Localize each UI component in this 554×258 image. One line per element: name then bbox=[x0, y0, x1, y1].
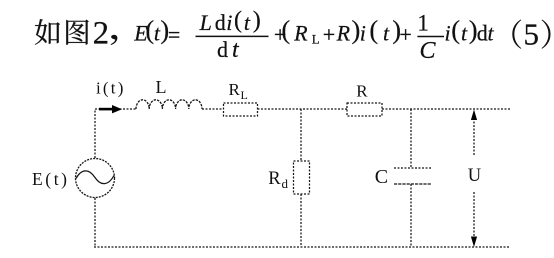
resistor RL box bbox=[224, 103, 258, 116]
svg-text:t: t bbox=[383, 21, 390, 46]
wire: source bottom lead bbox=[94, 198, 96, 247]
svg-text:i: i bbox=[226, 10, 232, 35]
svg-text:(: ( bbox=[281, 14, 290, 44]
wire: Rd branch upper bbox=[300, 109, 302, 161]
fullwidth ( of (5) bbox=[512, 19, 521, 48]
resistor Rd box bbox=[294, 161, 310, 194]
svg-text:5: 5 bbox=[524, 16, 540, 51]
svg-text:1: 1 bbox=[417, 10, 429, 35]
wire: C branch lower bbox=[410, 184, 412, 247]
svg-text:(: ( bbox=[145, 14, 154, 44]
U voltage arrow lower segment bbox=[473, 192, 475, 240]
svg-text:R: R bbox=[356, 81, 368, 100]
svg-text:R: R bbox=[293, 21, 308, 46]
svg-text:t: t bbox=[244, 10, 251, 35]
svg-text:L: L bbox=[199, 10, 212, 35]
source E(t) circle bbox=[76, 159, 115, 198]
svg-text:t: t bbox=[461, 21, 468, 46]
wire: top-left corner from source to inductor bbox=[95, 109, 136, 158]
svg-text:i: i bbox=[445, 21, 451, 46]
svg-text:C: C bbox=[420, 38, 437, 64]
svg-text:R: R bbox=[229, 80, 241, 99]
wire: Rd branch lower bbox=[300, 194, 302, 247]
fullwidth comma bbox=[111, 35, 118, 45]
svg-text:E(t): E(t) bbox=[32, 169, 70, 189]
svg-text:d: d bbox=[217, 37, 228, 62]
svg-text:(: ( bbox=[234, 8, 242, 34]
svg-text:d: d bbox=[282, 176, 289, 191]
wire: inductor to RL bbox=[202, 108, 223, 110]
svg-text:(: ( bbox=[451, 14, 460, 44]
svg-text:+: + bbox=[399, 22, 411, 47]
hanzi 如 bbox=[35, 19, 60, 45]
svg-text:C: C bbox=[375, 166, 388, 188]
inductor L bbox=[136, 100, 202, 109]
hanzi 图 bbox=[66, 20, 88, 45]
fullwidth ) of (5) bbox=[542, 19, 551, 48]
svg-text:d: d bbox=[215, 10, 226, 35]
svg-text:i(t): i(t) bbox=[96, 79, 126, 98]
svg-text:t: t bbox=[232, 37, 240, 63]
U voltage arrow upper segment bbox=[473, 118, 475, 155]
svg-text:+: + bbox=[323, 22, 335, 47]
fraction 1/C bar bbox=[417, 36, 444, 38]
svg-text:R: R bbox=[336, 21, 351, 46]
capacitor C bottom plate bbox=[394, 183, 431, 185]
svg-text:): ) bbox=[253, 8, 261, 34]
source sine wave bbox=[76, 171, 114, 184]
svg-text:2: 2 bbox=[93, 15, 110, 51]
current arrow i(t) shaft bbox=[99, 108, 113, 111]
svg-text:t: t bbox=[488, 21, 495, 46]
current arrow i(t) head bbox=[112, 105, 122, 113]
svg-text:L: L bbox=[312, 32, 320, 47]
svg-text:i: i bbox=[360, 21, 366, 46]
circuit labels bbox=[32, 77, 481, 191]
U arrowhead down bbox=[471, 237, 477, 248]
U arrowhead up bbox=[471, 110, 477, 121]
wire: R to right end of top rail bbox=[382, 108, 511, 110]
fraction Ldi(t)/dt bar bbox=[196, 35, 269, 37]
capacitor C top plate bbox=[394, 167, 431, 169]
svg-text:L: L bbox=[241, 88, 248, 102]
svg-text:U: U bbox=[468, 166, 481, 186]
wire: C branch upper bbox=[410, 109, 412, 168]
wire: RL to R bbox=[258, 108, 348, 110]
svg-text:d: d bbox=[477, 21, 488, 46]
wire: bottom rail bbox=[94, 246, 510, 248]
resistor R box bbox=[347, 103, 382, 116]
svg-text:L: L bbox=[156, 77, 167, 97]
svg-text:(: ( bbox=[369, 14, 378, 44]
svg-text:=: = bbox=[168, 22, 180, 47]
svg-text:R: R bbox=[268, 169, 281, 189]
